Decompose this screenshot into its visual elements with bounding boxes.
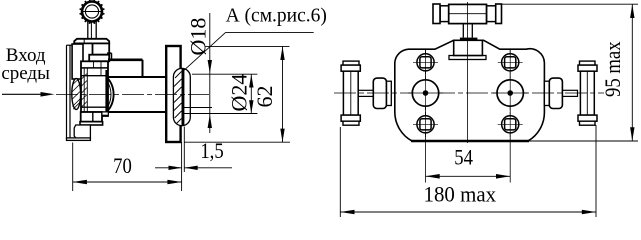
valve seat arcs [107, 77, 114, 112]
svg-text:62: 62 [252, 86, 277, 108]
dim 54 [426, 146, 511, 179]
label A (see fig.6) [184, 6, 327, 71]
axis line right column [509, 49, 511, 183]
inlet boss ellipse [72, 79, 81, 110]
upper mount flange [72, 44, 83, 79]
svg-text:95 max: 95 max [602, 41, 626, 97]
bolt top-left [413, 50, 438, 75]
port right [493, 76, 528, 110]
bonnet body [93, 43, 110, 54]
dim d24 [182, 74, 258, 114]
left bonnet [358, 78, 391, 108]
left T-handle [341, 61, 360, 125]
gasket capsule [173, 68, 190, 125]
outlet pipe [108, 77, 166, 112]
right bonnet [544, 78, 577, 108]
manifold block [395, 40, 545, 141]
bracket plate [67, 45, 73, 139]
body bottom step [102, 112, 108, 115]
lower flange [81, 112, 102, 122]
dim d18 callout [186, 13, 213, 133]
center line vertical main [467, 2, 469, 143]
dim 180 max [340, 125, 596, 217]
bonnet locknut [89, 55, 109, 62]
foot block [74, 125, 90, 138]
center line horizontal right view [334, 92, 604, 94]
bonnet top band [74, 39, 109, 44]
svg-text:среды: среды [1, 63, 50, 84]
svg-text:А (см.рис.6): А (см.рис.6) [226, 6, 327, 27]
right T-handle [578, 61, 597, 125]
inlet flow arrow [2, 92, 55, 97]
valve body hatch [82, 74, 88, 108]
dim 70 [73, 142, 182, 191]
top T-handle [433, 4, 502, 24]
bolt top-right [498, 50, 523, 75]
flange plate [166, 46, 180, 142]
lower flange plate band [80, 122, 103, 125]
dim 95 max [502, 4, 639, 141]
top valve stem [463, 23, 472, 38]
center line left view [56, 93, 209, 95]
axis line left column [425, 49, 427, 183]
port left [408, 76, 443, 110]
dim 62 [184, 46, 290, 142]
bolt bottom-left [413, 112, 438, 137]
dim 1,5 [155, 127, 232, 173]
bracket foot bar [67, 138, 91, 141]
knob handwheel [80, 0, 105, 24]
valve stem [88, 21, 96, 39]
top bonnet [449, 38, 486, 60]
svg-text:180 max: 180 max [424, 182, 497, 207]
bolt bottom-right [498, 112, 523, 137]
svg-text:1,5: 1,5 [200, 140, 223, 164]
svg-text:70: 70 [113, 155, 132, 179]
svg-text:Ø24: Ø24 [227, 74, 252, 112]
upper outlet stub [107, 53, 143, 77]
valve body [81, 61, 108, 116]
svg-text:54: 54 [454, 146, 473, 170]
